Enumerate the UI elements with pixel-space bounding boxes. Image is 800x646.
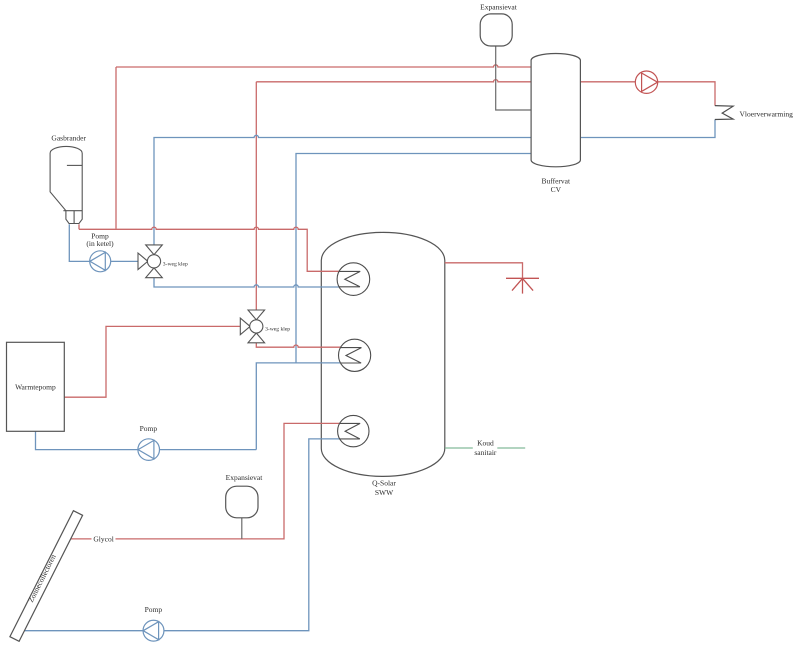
wire: red buffer hot out y81.8 right segment to pump	[580, 81, 635, 83]
3-way valve V2	[240, 310, 264, 343]
svg-text:Pomp: Pomp	[140, 424, 158, 433]
wire: red heat pump supply to valve2	[65, 326, 241, 397]
tap draw-off symbol	[506, 278, 539, 293]
svg-text:Glycol: Glycol	[93, 534, 113, 543]
svg-text:Q-Solar: Q-Solar	[372, 478, 396, 487]
solar collector panel (Zonnecollectoren)	[10, 511, 83, 642]
svg-text:Koud: Koud	[477, 439, 494, 448]
buffer vessel (Buffervat CV)	[531, 53, 580, 166]
wire: blue floor heating return	[580, 120, 715, 138]
wire: blue solar return pump to coil3	[164, 439, 340, 631]
wire: blue burner return from gasbrander	[69, 224, 89, 261]
wire: blue pump middle to riser x256	[160, 449, 257, 451]
svg-text:SWW: SWW	[375, 488, 394, 497]
3-way valve V1	[138, 245, 162, 278]
pump P1 (Pomp in ketel)	[90, 251, 111, 272]
heat exchanger coil 2	[339, 339, 371, 371]
wire: black expansion vessel 1 stem	[496, 46, 531, 110]
label Glycol	[92, 534, 116, 543]
wire: red buffer hot out y81.8 left segment	[256, 80, 531, 82]
heat pump box (Warmtepomp)	[7, 342, 65, 431]
wire: red sanitary hot water out to tap	[445, 263, 523, 279]
wire: blue pump1 to valve1	[111, 260, 138, 262]
svg-text:Expansievat: Expansievat	[226, 473, 264, 482]
wire: red valve2 bottom to coil2	[256, 342, 340, 347]
svg-text:Warmtepomp: Warmtepomp	[15, 382, 56, 391]
pump P2 (middle Pomp)	[138, 439, 160, 461]
wire: blue buffer return y137.5 left of buffer	[154, 135, 531, 245]
expansion vessel 1 (Expansievat)	[480, 14, 512, 46]
svg-text:(in ketel): (in ketel)	[86, 239, 114, 248]
wire: blue heat pump return to pump	[36, 431, 138, 449]
wire: blue buffer bottom line y153.5	[296, 154, 531, 363]
svg-text:3-weg klep: 3-weg klep	[265, 326, 290, 332]
wire: red pump to floor heating	[658, 82, 715, 106]
expansion vessel 2 (Expansievat)	[226, 486, 258, 518]
wire: blue valve1 bottom to coil1	[154, 278, 339, 287]
wire: blue coil2 return line y362.9	[256, 363, 340, 450]
wire: red supply to buffer top y67	[116, 65, 531, 67]
pump P3 (red circulation pump)	[635, 71, 657, 93]
svg-text:Expansievat: Expansievat	[480, 3, 518, 12]
svg-text:Gasbrander: Gasbrander	[51, 133, 86, 142]
svg-text:Pomp: Pomp	[145, 605, 163, 614]
svg-text:CV: CV	[551, 185, 562, 194]
wire: red solar glycol line	[69, 423, 340, 539]
wire: red burner outlet stub	[78, 224, 80, 229]
heat exchanger coil 1	[337, 263, 370, 296]
wire: green cold sanitary inlet	[445, 447, 525, 449]
storage tank (Q-Solar SWW)	[321, 232, 445, 476]
heat exchanger coil 3	[338, 415, 369, 446]
floor heating symbol (Vloerverwarming)	[715, 106, 733, 120]
svg-text:3-weg klep: 3-weg klep	[163, 261, 188, 267]
wire: blue solar return bottom	[18, 630, 144, 632]
wire: black expansion vessel 2 stem	[241, 518, 243, 539]
pump P4 (bottom Pomp)	[143, 620, 164, 641]
svg-text:sanitair: sanitair	[474, 448, 497, 457]
wire: red boiler supply riser x116	[115, 67, 117, 229]
wire: red riser x256 from buffer line to valve2	[255, 82, 257, 311]
svg-text:Vloerverwarming: Vloerverwarming	[740, 109, 794, 118]
wire: red burner supply y229.3	[79, 227, 339, 271]
gas burner (Gasbrander)	[50, 146, 82, 223]
